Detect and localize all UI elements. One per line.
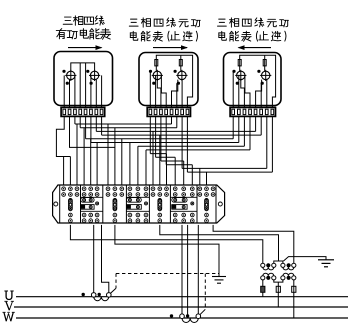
TB left mounting hole — [54, 202, 58, 206]
wire net y=157 — [156, 156, 176, 158]
wire net y=172 — [187, 171, 272, 173]
bridge between plug groups (top) — [274, 261, 283, 263]
wire: W voltage from TB to plug group (right) — [213, 225, 294, 263]
meter P3 terminal 2 — [238, 109, 241, 114]
TB current section 2 sub-frame — [126, 196, 149, 198]
TB voltage link 4 — [205, 199, 209, 211]
voltage plug connector group 1 (lower row) — [261, 276, 265, 280]
meter P3 measuring element 2 — [262, 71, 270, 79]
wire net y=124 — [75, 123, 172, 125]
ground symbol (CT/neutral earth) — [218, 274, 220, 277]
TB section divider x=103 — [102, 185, 104, 223]
TB voltage section 1 terminals — [62, 187, 66, 191]
wire net y=139 — [86, 138, 234, 140]
meter P3 terminal 3 — [243, 109, 246, 114]
TB current shorting link 2 upper — [127, 198, 142, 203]
meter P3 terminal 6 — [260, 109, 263, 114]
wire net y=128 — [80, 127, 177, 129]
current transformer TA2 on W bus — [180, 314, 185, 319]
bridge between plug groups (bottom) — [274, 280, 283, 282]
earth tail into U CT terminal — [110, 288, 116, 293]
meter P1 element lead wires — [63, 75, 65, 107]
TB voltage section 2 terminals — [106, 187, 110, 191]
label: dian-neng-biao(zhi-ni) (meter P3 line 2) — [219, 31, 227, 40]
wire net y=146 — [138, 145, 245, 147]
wire net y=131 — [96, 130, 255, 132]
bus label V — [4, 301, 14, 310]
meter P2 terminal 4 — [165, 109, 168, 114]
meter P3 terminal 5 — [254, 109, 257, 114]
bus bar U — [16, 296, 348, 298]
fuse FU2 (V phase) — [277, 286, 279, 307]
meter P1 terminal 8 — [100, 109, 103, 114]
TB voltage section 4 terminals — [198, 187, 202, 191]
meter P3 measuring element 1 — [237, 71, 245, 79]
wire: plug group2 to fuse FU3 — [293, 280, 295, 286]
TB right mounting hole — [218, 202, 222, 206]
TB current shorting link 2 lower — [127, 205, 142, 210]
meter P2 terminal 1 — [149, 109, 152, 114]
TB section divider x=170 — [169, 185, 171, 223]
meter P1 terminal strip — [61, 107, 105, 116]
meter P1 terminal 6 — [90, 109, 93, 114]
meter P2 measuring element 1 — [153, 71, 161, 79]
TB end dividers — [59, 185, 61, 223]
wire: TB to W-phase CT lead 1 — [181, 225, 183, 314]
label: san-xiang-si-xian-wu-gong (meter P3 line 1) — [218, 19, 227, 26]
TB current section 2 terminals — [128, 187, 132, 191]
dashed earth link to U CT — [115, 274, 117, 289]
meter P2 element lead wires — [149, 71, 151, 107]
wire: neutral from TB to earth point — [115, 225, 219, 274]
meter P2 terminal 7 — [181, 109, 184, 114]
wire net y=161 — [161, 160, 184, 162]
TB section divider x=126 — [125, 185, 127, 223]
meter P2 terminal 5 — [170, 109, 173, 114]
TA2 polarity dots — [170, 314, 173, 317]
label: san-xiang-si-xian-wu-gong (meter P2 line 1) — [129, 19, 138, 26]
wire: meter P1 terminal 1 to block cols 1-2 — [56, 116, 70, 156]
bus bar V — [14, 306, 348, 308]
wire: meter P1 terminal 2 toward block col 8 — [70, 116, 115, 147]
wire: TB to U-phase CT primary-side (left lead) — [93, 225, 95, 293]
wire: bottom bridge to fuse FU2 — [277, 282, 279, 286]
bus bar W — [16, 317, 348, 319]
meter P1 direction arrow — [68, 47, 102, 49]
meter P3 damping resistor 2 — [263, 60, 266, 66]
meter P3 terminal 8 — [271, 109, 274, 114]
TB current section 1 terminals — [82, 187, 86, 191]
fuse FU1 (U phase) — [261, 286, 265, 292]
meter P3 internal voltage loop — [240, 55, 265, 66]
meter P1 terminal 3 — [74, 109, 77, 114]
wire: TB to W-phase CT junction lead — [187, 225, 189, 316]
TB current shorting link 1 lower — [81, 205, 94, 210]
meter P3 terminal 1 — [232, 109, 235, 114]
TB current shorting link 1 upper — [81, 198, 94, 203]
earth tail into W CT terminal — [200, 309, 205, 314]
meter P1 polarity dots — [62, 70, 65, 73]
wire: FU1 to U bus — [262, 292, 264, 296]
wire net y=168 — [182, 167, 267, 169]
TB current section 1 middle terminal — [96, 202, 99, 205]
label: dian-neng-biao(zhi-ni) (meter P2 line 2) — [130, 31, 138, 40]
meter P1 measuring element 1 — [67, 71, 75, 79]
meter P1 terminal 5 — [84, 109, 87, 114]
meter P2 damping resistor 2 — [179, 60, 182, 66]
TB voltage link 1 — [69, 199, 73, 211]
meter P2 body — [139, 53, 198, 106]
meter P1 terminal 4 — [79, 109, 82, 114]
TB current shorting link 3 lower — [172, 205, 187, 210]
TB section divider x=149 — [148, 185, 150, 223]
voltage plug connector group 1 (upper row) — [261, 263, 265, 267]
ground symbol (voltage circuit earth) — [318, 259, 334, 261]
meter P2 terminal 8 — [186, 109, 189, 114]
TB current shorting link 3 upper — [172, 198, 187, 203]
meter P1 measuring element 2 — [90, 71, 98, 79]
current transformer TA1 on U bus — [91, 293, 96, 298]
meter P3 polarity dots — [232, 70, 235, 73]
meter P1 terminal 1 — [63, 109, 66, 114]
meter P2 damping resistor 1 — [155, 60, 158, 66]
meter P1 body — [54, 52, 113, 106]
dashed earth link (horizontal run) — [116, 273, 219, 275]
meter P3 damping resistor 1 — [238, 60, 241, 66]
meter P2 terminal 3 — [160, 109, 163, 114]
meter P3 body — [224, 53, 282, 106]
TB current section 1 sub-frame — [81, 196, 103, 198]
TA1 polarity dots — [82, 293, 85, 296]
wire net y=165 — [166, 164, 192, 166]
meter P3 direction arrow — [239, 47, 272, 49]
wire: U voltage from TB to plug group (left) — [70, 225, 262, 263]
meter P1 terminal 2 — [68, 109, 71, 114]
voltage plug connector group 2 (upper row) — [281, 263, 285, 267]
bus label U — [4, 291, 13, 300]
voltage plug connector group 2 (lower row) — [281, 276, 285, 280]
meter P2 terminal strip — [147, 107, 190, 116]
wire: plug group1 to fuse FU1 — [262, 280, 264, 286]
test terminal block TB outline — [53, 185, 225, 223]
wire net y=154 — [150, 153, 166, 155]
TB voltage link 3 — [158, 199, 162, 211]
meter P1 terminal 7 — [95, 109, 98, 114]
meter P3 terminal 7 — [265, 109, 268, 114]
fuse FU3 (W phase) — [293, 286, 295, 318]
meter P3 terminal strip — [230, 107, 275, 116]
wire net y=135 — [102, 134, 262, 136]
meter P2 direction arrow — [153, 47, 187, 49]
TB current section 2 middle terminal — [145, 202, 148, 205]
TB current section 3 sub-frame — [170, 196, 197, 198]
meter P2 internal voltage loop — [156, 55, 181, 66]
bus label W — [3, 312, 15, 321]
TB voltage link 2 — [113, 199, 117, 211]
wire to right ground — [284, 257, 327, 261]
label: san-xiang-si-xian (meter P1 line 1) — [63, 17, 72, 24]
label: you-gong-dian-neng-biao (meter P1 line 2) — [56, 29, 66, 39]
meter P3 terminal 4 — [249, 109, 252, 114]
wire: V voltage from TB to plug bridge — [160, 225, 279, 261]
wire: TB to W-phase CT lead 2 — [197, 225, 199, 314]
meter P2 terminal 6 — [176, 109, 179, 114]
TB voltage section 3 terminals — [151, 187, 155, 191]
TB current section 3 middle terminal — [191, 202, 194, 205]
meter P1 internal voltage loop — [71, 63, 95, 71]
wire net y=142 — [91, 142, 239, 144]
TB section divider x=80 — [80, 185, 82, 223]
TB section divider x=197 — [196, 185, 198, 223]
wire net y=150 — [146, 149, 250, 151]
wire: TB to U-phase CT (right lead, stepped) — [102, 225, 109, 293]
dashed earth link to W CT — [204, 274, 206, 310]
meter P3 element lead wires — [232, 71, 234, 107]
meter P2 measuring element 2 — [178, 71, 186, 79]
meter P2 terminal 2 — [154, 109, 157, 114]
TB current section 3 terminals — [173, 187, 177, 191]
meter P2 polarity dots — [149, 70, 152, 73]
